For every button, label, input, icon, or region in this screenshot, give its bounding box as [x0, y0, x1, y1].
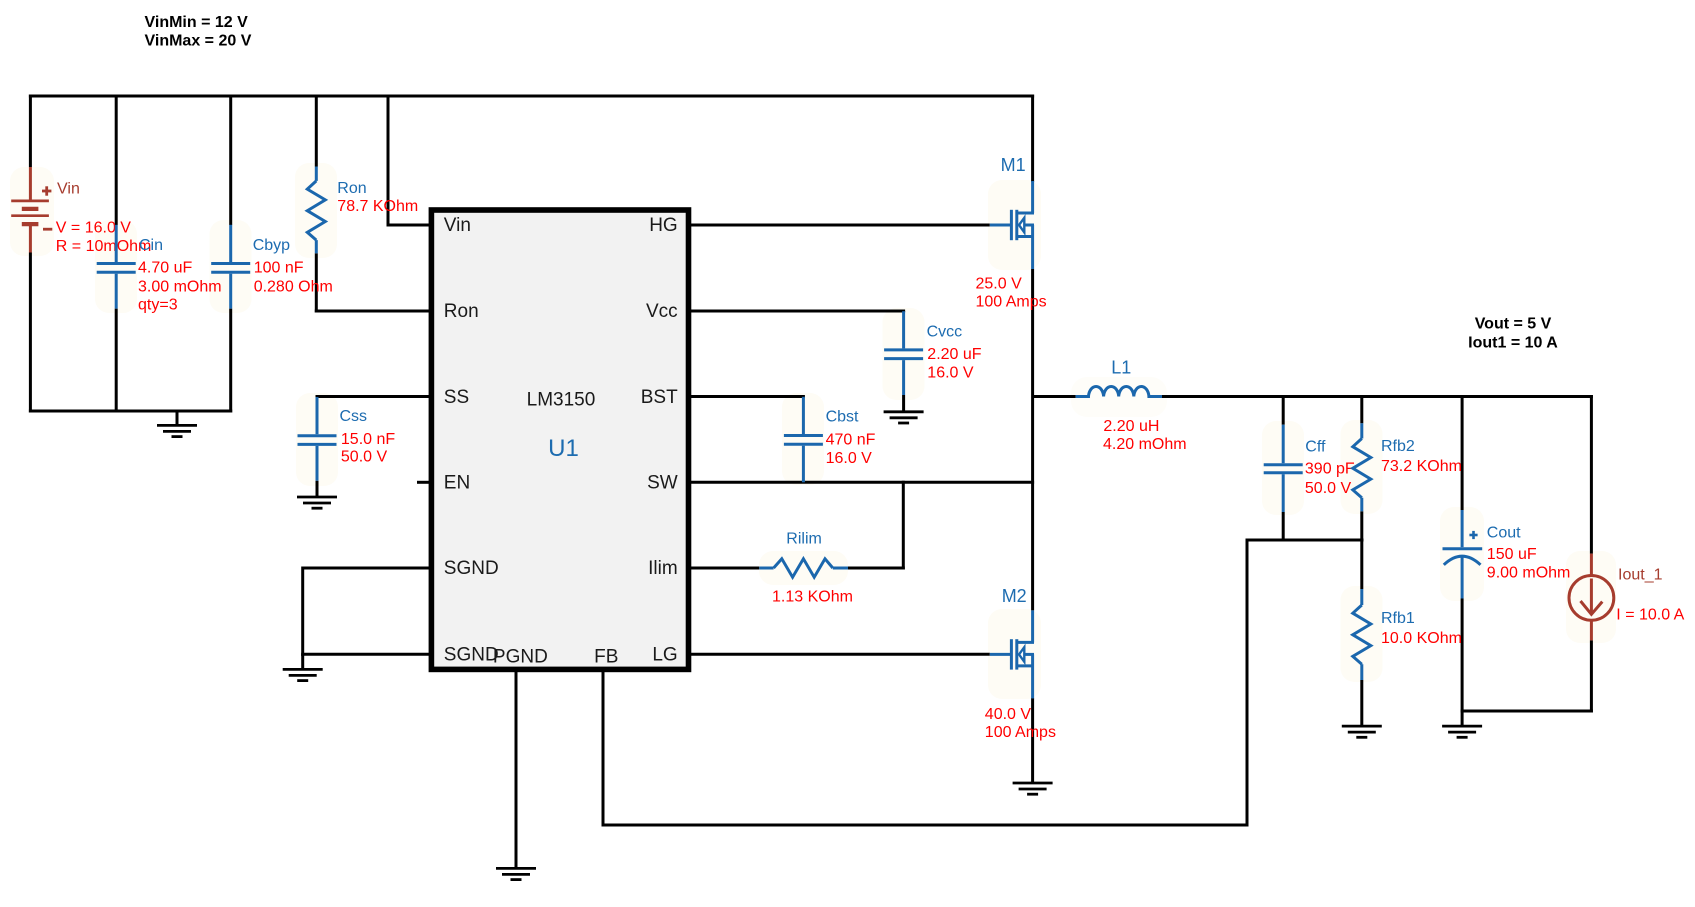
- wire Cff stem top: [1282, 395, 1285, 425]
- svg-text:BST: BST: [641, 387, 678, 408]
- U1 pin SS: [444, 387, 469, 408]
- wire battery top lead: [29, 95, 32, 168]
- output net labels Vout/Iout1: [1468, 316, 1558, 352]
- U1 pin LG: [652, 644, 677, 665]
- svg-text:Iout1 = 10 A: Iout1 = 10 A: [1468, 335, 1558, 352]
- op-amp regulator U1 LM3150 body: [431, 210, 688, 669]
- svg-text:Ron: Ron: [337, 180, 366, 197]
- svg-text:L1: L1: [1111, 358, 1131, 378]
- wire M2 source to ground: [1031, 698, 1034, 783]
- svg-text:16.0 V: 16.0 V: [826, 450, 873, 467]
- svg-text:100 nF: 100 nF: [254, 260, 304, 277]
- svg-text:Cff: Cff: [1305, 439, 1326, 456]
- Cbyp label: [253, 237, 290, 254]
- wire Cin top: [115, 95, 118, 226]
- svg-text:Vout = 5 V: Vout = 5 V: [1475, 316, 1552, 333]
- wire M1 drain from rail: [1031, 95, 1034, 183]
- current source Iout_1: [1569, 554, 1614, 641]
- U1 pin BST: [641, 387, 678, 408]
- svg-text:SGND: SGND: [444, 644, 499, 665]
- svg-text:Cout: Cout: [1487, 524, 1521, 541]
- capacitor Cbst: [784, 397, 823, 483]
- ground M2 source: [1013, 783, 1053, 794]
- Cbst label: [826, 409, 859, 426]
- svg-text:qty=3: qty=3: [138, 297, 178, 314]
- svg-text:SW: SW: [647, 472, 678, 493]
- wire EN stub: [417, 481, 430, 484]
- capacitor Cout polarized: [1443, 510, 1483, 599]
- svg-text:3.00 mOhm: 3.00 mOhm: [138, 278, 222, 295]
- wire FB riser: [1246, 539, 1249, 827]
- svg-text:9.00 mOhm: 9.00 mOhm: [1487, 565, 1571, 582]
- Ron value: [337, 198, 418, 215]
- svg-text:100 Amps: 100 Amps: [985, 724, 1056, 741]
- wire HG pin to M1 gate: [691, 224, 990, 227]
- svg-text:15.0 nF: 15.0 nF: [341, 431, 395, 448]
- wire Vcc pin to Cvcc: [691, 311, 905, 312]
- wire SW pin: [691, 481, 1034, 484]
- M2 values: [985, 706, 1056, 741]
- svg-text:40.0 V: 40.0 V: [985, 706, 1032, 723]
- L1 label: [1111, 358, 1131, 378]
- wire Iout bottom lead: [1590, 640, 1593, 712]
- svg-text:0.280 Ohm: 0.280 Ohm: [254, 278, 333, 295]
- resistor Rfb2: [1353, 423, 1371, 511]
- Cin label: [139, 237, 163, 254]
- svg-text:M2: M2: [1002, 586, 1027, 606]
- wire SGND pin: [303, 567, 430, 570]
- Cin values: [138, 260, 222, 314]
- Rfb2 label: [1381, 438, 1415, 455]
- svg-text:1.13 KOhm: 1.13 KOhm: [772, 589, 853, 606]
- svg-text:M1: M1: [1001, 155, 1026, 175]
- inductor L1: [1076, 387, 1162, 397]
- capacitor Css: [298, 397, 337, 497]
- U1 pin Ron: [444, 301, 479, 322]
- svg-text:I = 10.0 A: I = 10.0 A: [1616, 607, 1684, 624]
- svg-text:Rilim: Rilim: [786, 531, 822, 548]
- capacitor Cvcc: [884, 311, 923, 412]
- Css values: [341, 431, 395, 466]
- Cout values: [1487, 546, 1571, 582]
- Css label: [340, 408, 368, 425]
- M2 label: [1002, 586, 1027, 606]
- Ron label: [337, 180, 366, 197]
- Rfb2 value: [1381, 458, 1462, 475]
- wire Cout top: [1461, 395, 1464, 510]
- svg-text:Vin: Vin: [57, 181, 80, 198]
- svg-text:50.0 V: 50.0 V: [1305, 480, 1352, 497]
- Cbyp values: [254, 260, 333, 296]
- svg-text:50.0 V: 50.0 V: [341, 449, 388, 466]
- svg-text:SS: SS: [444, 387, 469, 408]
- svg-text:PGND: PGND: [493, 647, 548, 668]
- U1 part number label: [527, 389, 596, 410]
- Iout_1 label: [1618, 567, 1663, 584]
- wire LG pin to M2 gate: [691, 653, 990, 656]
- Vin battery values: [56, 219, 152, 255]
- Rfb1 value: [1381, 630, 1462, 647]
- wire M1 source to M2 drain: [1031, 269, 1034, 610]
- svg-text:VinMax = 20 V: VinMax = 20 V: [145, 32, 252, 49]
- U1 pin SGND 2: [444, 644, 499, 665]
- svg-text:Ron: Ron: [444, 301, 479, 322]
- Cff values: [1305, 461, 1355, 497]
- wire Cff stem bottom: [1282, 512, 1285, 542]
- svg-text:25.0 V: 25.0 V: [976, 275, 1023, 292]
- svg-text:Cbyp: Cbyp: [253, 237, 290, 254]
- M1 label: [1001, 155, 1026, 175]
- Rilim label: [786, 531, 822, 548]
- wire output bottom return: [1461, 710, 1593, 713]
- U1 pin PGND: [493, 647, 548, 668]
- wire Rfb1 top: [1360, 540, 1363, 589]
- wire Rfb2 top: [1360, 395, 1363, 423]
- svg-text:470 nF: 470 nF: [826, 431, 876, 448]
- svg-text:Vcc: Vcc: [646, 301, 678, 322]
- svg-text:VinMin = 12 V: VinMin = 12 V: [145, 14, 249, 31]
- wire Vin pin drop: [387, 95, 431, 227]
- wire bottom input rail GND net: [29, 410, 232, 413]
- svg-text:4.70 uF: 4.70 uF: [138, 260, 192, 277]
- ground Cvcc: [884, 412, 924, 423]
- U1 pin Vcc: [646, 301, 678, 322]
- wire Ilim pin to Rilim: [691, 567, 759, 570]
- wire SGND vertical: [301, 567, 304, 656]
- svg-text:HG: HG: [649, 215, 678, 236]
- wire FB bottom run: [603, 824, 1249, 827]
- voltage source Vin battery: [11, 167, 52, 253]
- wire Cbyp top: [229, 95, 232, 226]
- svg-text:2.20 uF: 2.20 uF: [927, 346, 981, 363]
- svg-text:Cbst: Cbst: [826, 409, 859, 426]
- wire Cbyp bottom: [229, 309, 232, 413]
- svg-text:Vin: Vin: [444, 215, 471, 236]
- Cvcc label: [927, 324, 963, 341]
- svg-text:2.20 uH: 2.20 uH: [1103, 418, 1159, 435]
- wire PGND pin drop: [515, 670, 518, 868]
- wire SS pin: [316, 395, 431, 398]
- input net labels VinMin/VinMax: [145, 14, 252, 49]
- capacitor Cbyp: [211, 225, 250, 309]
- wire FB node line: [1247, 539, 1364, 542]
- svg-text:Rfb2: Rfb2: [1381, 438, 1415, 455]
- svg-text:Cin: Cin: [139, 237, 163, 254]
- svg-text:Iout_1: Iout_1: [1618, 567, 1663, 584]
- wire L1 to output rail Vout net: [1162, 395, 1593, 398]
- ground input GND: [157, 425, 197, 436]
- wire battery bottom lead: [29, 253, 32, 413]
- wire Cin bottom: [115, 309, 118, 411]
- wire input ground stem: [176, 411, 179, 425]
- svg-text:150 uF: 150 uF: [1487, 546, 1537, 563]
- ground SGND: [283, 669, 323, 680]
- M1 values: [976, 275, 1047, 310]
- svg-text:R = 10mOhm: R = 10mOhm: [56, 238, 152, 255]
- transistor M2 low-side NMOS: [990, 610, 1034, 698]
- svg-text:73.2 KOhm: 73.2 KOhm: [1381, 458, 1462, 475]
- U1 pin SGND: [444, 558, 499, 579]
- U1 pin FB: [594, 646, 618, 667]
- wire SGND2 pin: [301, 653, 430, 656]
- wire Rilim to SW riser: [848, 481, 905, 570]
- transistor M1 high-side NMOS: [990, 181, 1034, 269]
- svg-text:U1: U1: [548, 435, 579, 462]
- resistor Rfb1: [1353, 589, 1371, 680]
- resistor Rilim: [759, 559, 848, 577]
- Rfb1 label: [1381, 610, 1415, 627]
- ground Rfb1: [1342, 726, 1382, 737]
- Vin battery label: [57, 181, 80, 198]
- svg-text:Cvcc: Cvcc: [927, 324, 963, 341]
- wire Rfb1 bottom: [1360, 680, 1363, 726]
- ground PGND: [496, 868, 536, 879]
- svg-text:LG: LG: [652, 644, 677, 665]
- wire Ron top: [315, 95, 318, 167]
- U1 pin EN: [444, 472, 470, 493]
- svg-text:78.7 KOhm: 78.7 KOhm: [337, 198, 418, 215]
- wire Cout bottom: [1461, 599, 1464, 727]
- svg-text:390 pF: 390 pF: [1305, 461, 1355, 478]
- svg-text:FB: FB: [594, 646, 618, 667]
- ground Cout: [1442, 726, 1482, 737]
- svg-text:4.20 mOhm: 4.20 mOhm: [1103, 436, 1187, 453]
- wire SGND ground stem: [301, 654, 304, 669]
- ground Css: [297, 497, 337, 508]
- wire Rfb2 bottom: [1360, 511, 1363, 541]
- svg-text:LM3150: LM3150: [527, 389, 596, 410]
- svg-text:16.0 V: 16.0 V: [927, 364, 974, 381]
- svg-text:100 Amps: 100 Amps: [976, 293, 1047, 310]
- U1 pin HG: [649, 215, 678, 236]
- Cff label: [1305, 439, 1326, 456]
- U1 pin SW: [647, 472, 678, 493]
- U1 reference designator: [548, 435, 579, 462]
- Cvcc values: [927, 346, 981, 382]
- svg-text:10.0 KOhm: 10.0 KOhm: [1381, 630, 1462, 647]
- wire BST pin to Cbst: [691, 395, 805, 398]
- L1 values: [1103, 418, 1187, 453]
- wire FB pin drop: [602, 670, 605, 827]
- wire top input rail Vin net: [29, 95, 1034, 98]
- wire Iout top lead: [1590, 395, 1593, 554]
- Cbst values: [826, 431, 876, 467]
- svg-text:Rfb1: Rfb1: [1381, 610, 1415, 627]
- Cout label: [1487, 524, 1521, 541]
- resistor Ron: [307, 167, 325, 254]
- U1 pin Ilim: [648, 558, 678, 579]
- wire SW to L1: [1033, 395, 1076, 398]
- Rilim value: [772, 589, 853, 606]
- wire Ron bottom to Ron pin: [315, 253, 430, 312]
- capacitor Cff: [1264, 425, 1303, 512]
- svg-text:SGND: SGND: [444, 558, 499, 579]
- U1 pin Vin: [444, 215, 471, 236]
- svg-text:EN: EN: [444, 472, 470, 493]
- svg-text:V = 16.0 V: V = 16.0 V: [56, 219, 131, 236]
- capacitor Cin: [97, 225, 136, 309]
- svg-text:Css: Css: [340, 408, 368, 425]
- svg-text:Ilim: Ilim: [648, 558, 678, 579]
- Iout_1 value: [1616, 607, 1684, 624]
